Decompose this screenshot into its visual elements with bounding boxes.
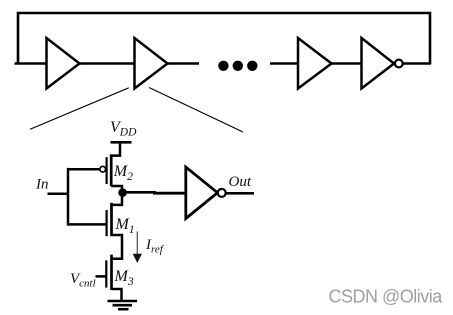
wire: M1 source to M3 drain — [112, 235, 123, 259]
output inverter — [186, 167, 218, 219]
wire: M1 drain to node — [112, 196, 123, 205]
wire: In lead — [48, 192, 70, 195]
wire: feedback top line — [18, 13, 430, 64]
ellipsis dots — [218, 61, 257, 71]
svg-text:M2: M2 — [113, 163, 133, 183]
transistor M3 channel — [110, 255, 113, 290]
wire: M3 source to ground — [112, 289, 122, 300]
transistor M2 gate bar — [105, 157, 107, 184]
wire: stub to buffer 3 — [270, 62, 299, 65]
wire: input to buffer 1 — [15, 62, 48, 65]
svg-text:Iref: Iref — [145, 237, 165, 256]
wire: node to output inverter (segment 1) — [123, 191, 156, 194]
buffer 1 — [47, 38, 80, 89]
transistor M2 channel — [110, 154, 113, 186]
svg-text:M1: M1 — [115, 216, 135, 236]
wire: M3 gate lead — [96, 275, 107, 278]
callout line left — [30, 88, 129, 130]
inverter 4 — [362, 38, 395, 89]
transistor M2 gate bubble — [100, 166, 106, 172]
Iref current arrow — [133, 232, 142, 264]
transistor M3 gate bar — [105, 260, 107, 287]
svg-text:CSDN @Olivia: CSDN @Olivia — [329, 287, 444, 307]
wire: input vertical tie — [67, 168, 70, 226]
wire: Out lead — [226, 192, 254, 195]
ground — [108, 301, 138, 309]
transistor M1 channel — [110, 203, 113, 236]
wire: bubble to right vertical — [403, 62, 431, 65]
output inverter bubble — [218, 189, 226, 197]
callout line right — [149, 88, 243, 133]
wire: gate branch to M2 — [68, 168, 100, 171]
buffer 2 — [135, 38, 168, 89]
svg-text:In: In — [35, 177, 49, 193]
svg-text:Vcntl: Vcntl — [70, 271, 96, 290]
wire: M2 drain to node — [111, 186, 122, 193]
wire: VDD to M2 source — [111, 142, 120, 155]
svg-text:Out: Out — [229, 174, 252, 190]
VDD supply bar — [111, 141, 132, 144]
svg-text:M3: M3 — [114, 268, 134, 288]
wire: buffer3 to inverter 4 — [332, 62, 363, 65]
svg-text:VDD: VDD — [110, 119, 137, 139]
inverter 4 bubble — [395, 60, 403, 68]
wire: buffer1 to buffer2 — [80, 62, 136, 65]
node: output junction dot — [118, 188, 127, 197]
wire: buffer2 output stub — [168, 62, 200, 65]
wire: node to output inverter (segment 2) — [153, 192, 186, 195]
buffer 3 — [298, 38, 332, 89]
wire: gate branch to M1 — [68, 223, 106, 226]
transistor M1 gate bar — [105, 210, 107, 236]
